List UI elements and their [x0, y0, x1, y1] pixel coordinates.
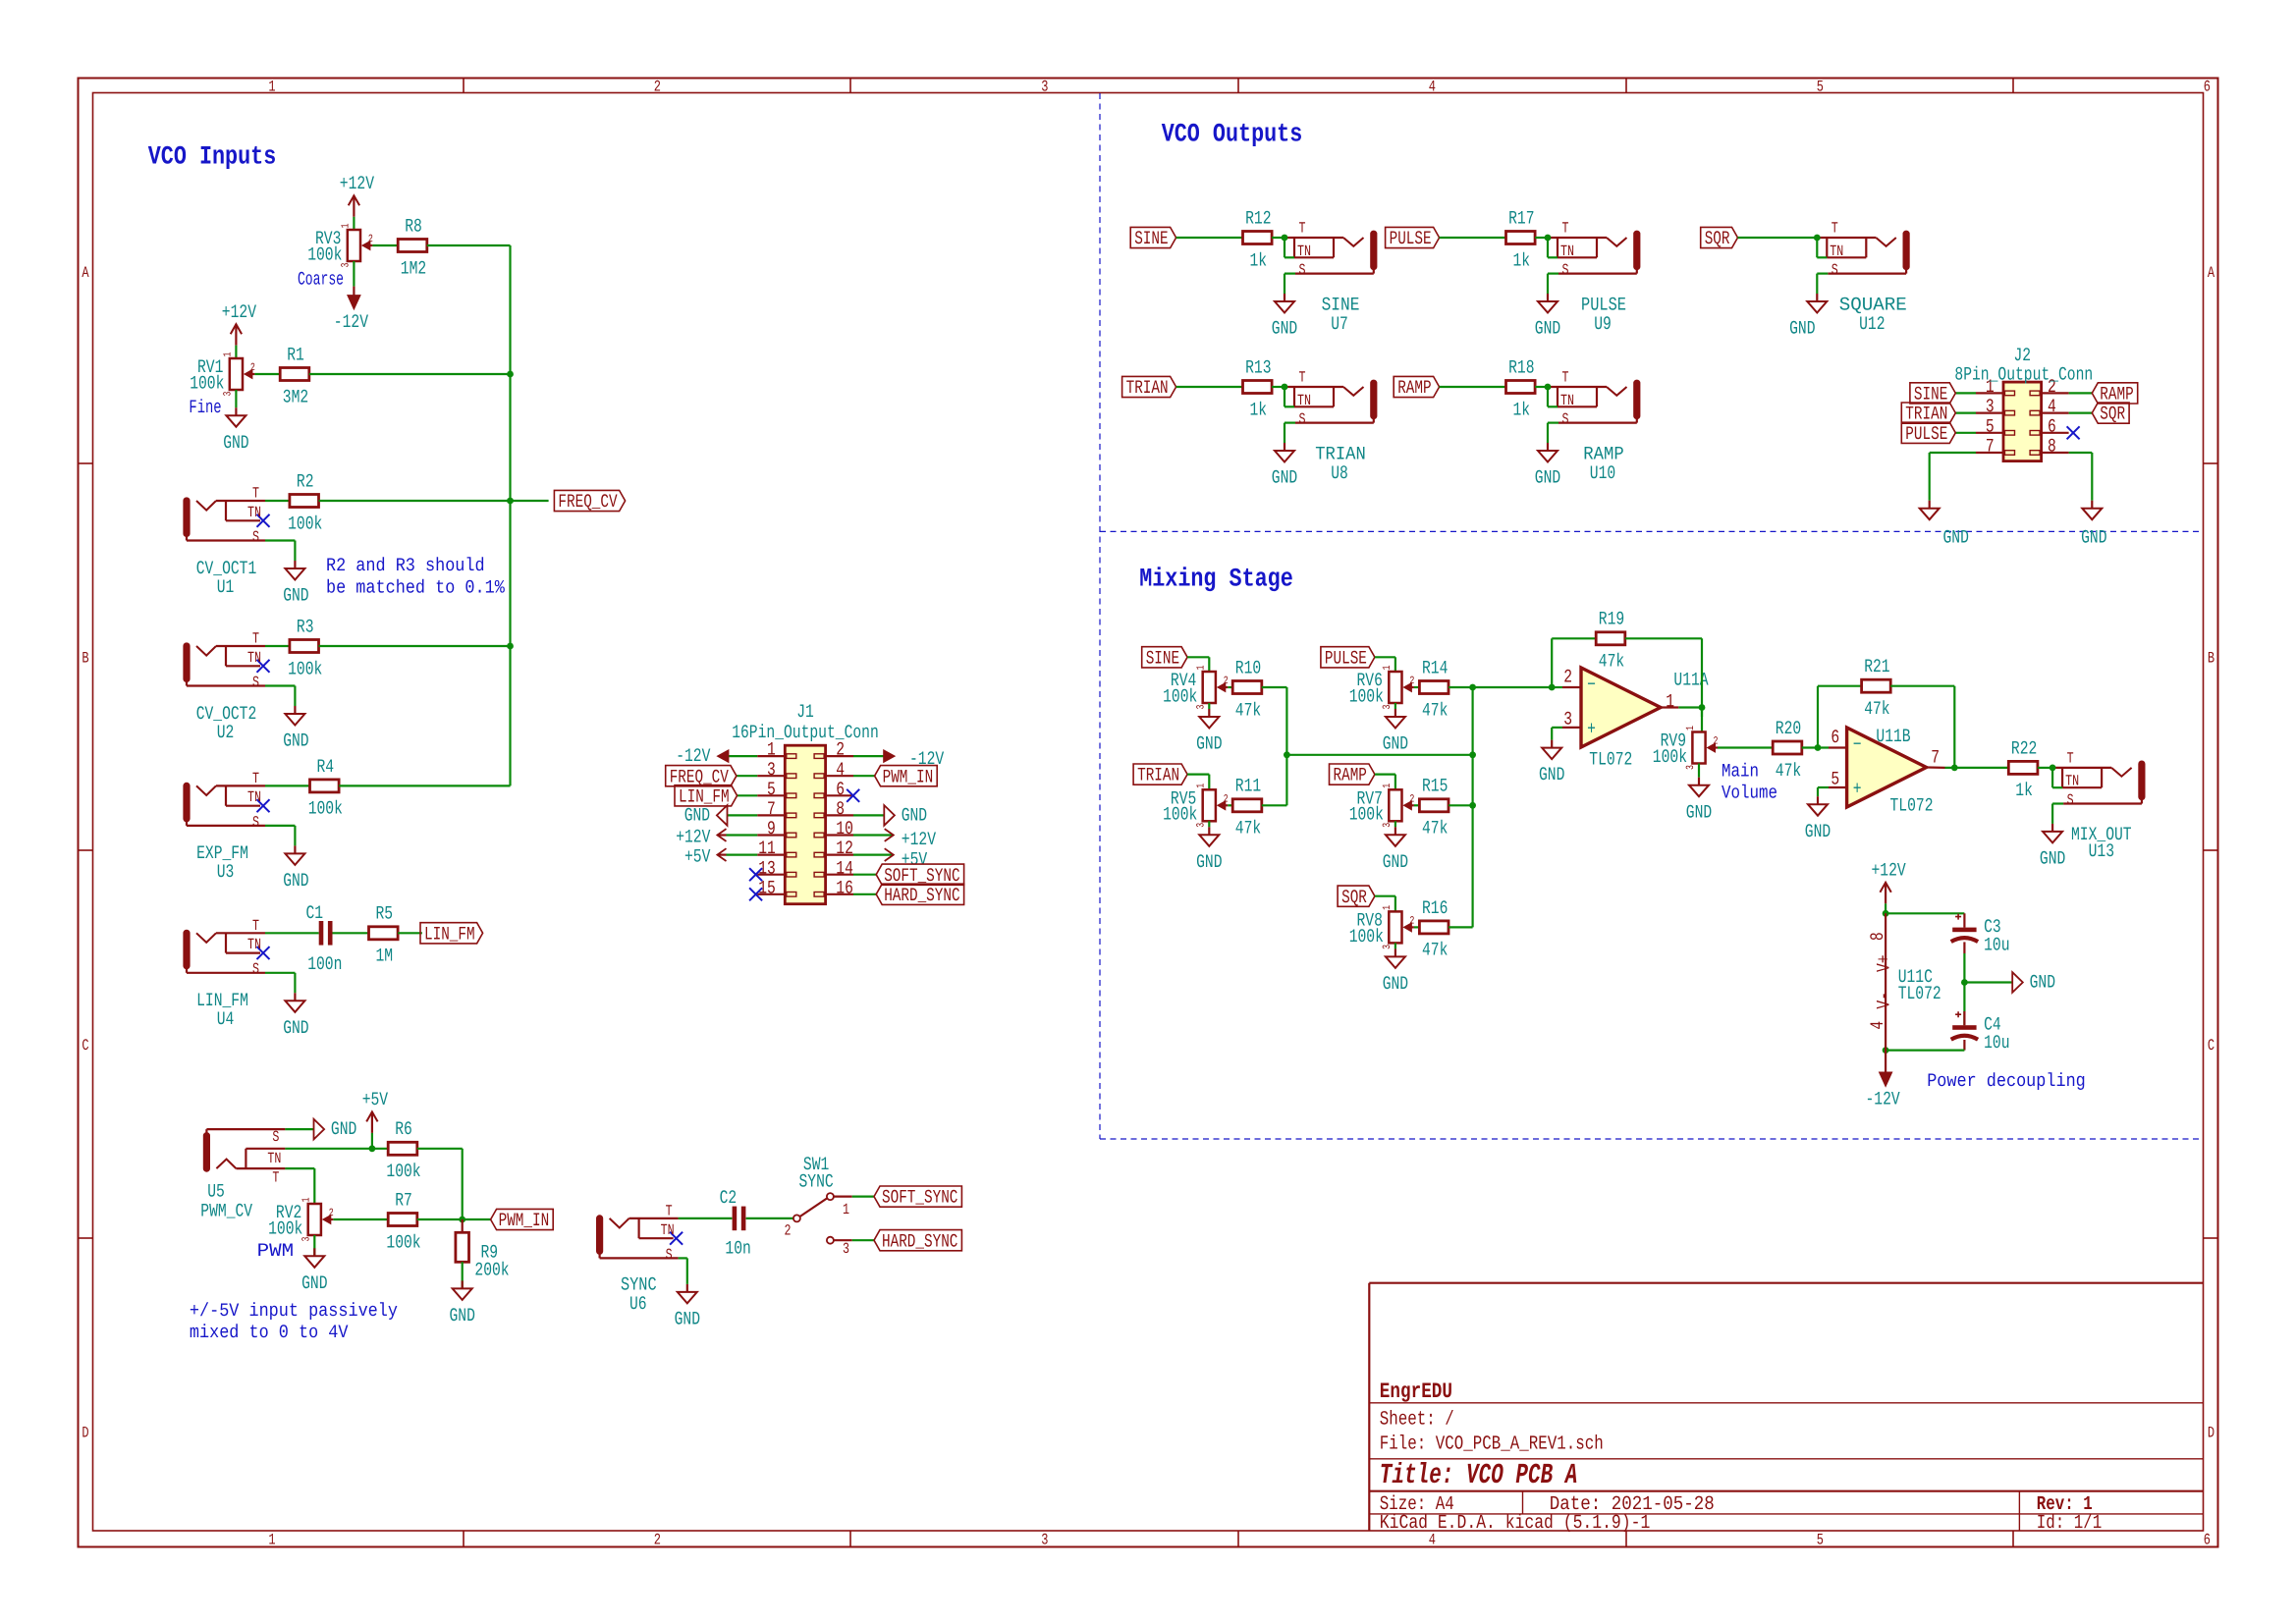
global label PULSE (U9)	[1386, 227, 1440, 249]
svg-text:T: T	[666, 1202, 673, 1219]
svg-text:GND: GND	[1539, 764, 1564, 785]
svg-text:RAMP: RAMP	[1397, 377, 1431, 399]
svg-text:4: 4	[2048, 396, 2056, 417]
svg-text:FREQ_CV: FREQ_CV	[558, 491, 618, 513]
global label HARD_SYNC (J1)	[876, 884, 963, 906]
title block sheet	[1380, 1408, 1454, 1431]
svg-text:2: 2	[1409, 915, 1414, 927]
wire RV4 wiper to R10	[1228, 686, 1232, 688]
wire R2 to junction	[319, 500, 549, 502]
svg-text:PWM_CV: PWM_CV	[200, 1200, 252, 1221]
svg-text:TL072: TL072	[1890, 794, 1934, 816]
svg-text:2: 2	[1409, 676, 1414, 687]
wire U1 T to R2	[265, 500, 290, 502]
svg-text:SYNC: SYNC	[799, 1171, 834, 1193]
wire RV2 wiper to R7	[333, 1218, 388, 1220]
global label SQR (J2)	[2092, 403, 2129, 425]
ground GND (RV9)	[1686, 778, 1712, 824]
jack U4 LIN_FM	[184, 917, 270, 978]
potentiometer RV3 100k	[307, 223, 373, 267]
svg-text:100k: 100k	[288, 513, 322, 534]
power +5V	[362, 1089, 389, 1149]
svg-text:GND: GND	[283, 730, 308, 752]
ground GND (RV1)	[223, 407, 248, 454]
svg-text:11: 11	[758, 838, 776, 859]
svg-text:GND: GND	[223, 432, 248, 454]
svg-text:6: 6	[836, 779, 845, 800]
ground GND (U6)	[675, 1284, 700, 1330]
svg-text:2: 2	[1224, 793, 1229, 805]
junction U11A pin2	[1549, 684, 1556, 691]
svg-text:10u: 10u	[1984, 1032, 2009, 1054]
junction R2/bus	[507, 498, 514, 505]
resistor R21 47k feedback	[1818, 656, 1954, 768]
svg-text:U11B: U11B	[1876, 726, 1910, 747]
jack U6 SYNC	[597, 1202, 683, 1264]
svg-text:-12V: -12V	[334, 311, 369, 333]
jack U12 SQUARE	[1789, 220, 1909, 340]
svg-text:100n: 100n	[307, 953, 342, 975]
note Power decoupling	[1927, 1070, 2086, 1092]
svg-text:2: 2	[654, 79, 661, 96]
svg-text:A: A	[82, 264, 88, 282]
svg-text:S: S	[252, 813, 259, 831]
svg-text:6: 6	[2204, 79, 2211, 96]
title block rev	[2037, 1493, 2093, 1516]
svg-text:File: VCO_PCB_A_REV1.sch: File: VCO_PCB_A_REV1.sch	[1380, 1433, 1604, 1455]
jack U8 TRIAN	[1272, 369, 1377, 489]
wire RV2 pin3 to GND	[313, 1235, 315, 1256]
svg-text:GND: GND	[1383, 973, 1408, 995]
svg-text:1k: 1k	[1250, 249, 1268, 271]
junction R1/bus	[507, 371, 514, 378]
svg-text:U9: U9	[1594, 313, 1612, 335]
svg-text:B: B	[82, 649, 88, 667]
svg-text:S: S	[252, 674, 259, 691]
potentiometer RV4 100k	[1163, 665, 1229, 709]
svg-text:Sheet: /: Sheet: /	[1380, 1408, 1454, 1431]
wire R3 to bus	[319, 645, 511, 647]
svg-text:100k: 100k	[308, 798, 343, 820]
wire U2 S to GND	[265, 686, 295, 707]
wire R22 to jack U13	[2038, 767, 2052, 769]
ground GND (U11B+)	[1805, 796, 1831, 842]
connector J1 16Pin_Output_Conn	[732, 701, 879, 904]
svg-text:HARD_SYNC: HARD_SYNC	[884, 885, 959, 906]
ground GND (R9)	[450, 1280, 475, 1326]
wire R4 to bus corner	[339, 784, 510, 786]
svg-text:TN: TN	[247, 788, 261, 806]
svg-text:−: −	[1853, 734, 1862, 756]
wire RV8 wiper to R16	[1414, 926, 1420, 928]
capacitor C3 10u	[1951, 914, 2010, 956]
svg-text:100k: 100k	[1349, 804, 1384, 826]
svg-text:+/-5V input passively: +/-5V input passively	[190, 1300, 398, 1322]
section header VCO Outputs	[1162, 120, 1303, 149]
switch SW1 SYNC	[785, 1154, 852, 1258]
svg-text:47k: 47k	[1422, 699, 1448, 721]
wire U5 T to RV2	[285, 1168, 314, 1204]
svg-text:2: 2	[785, 1222, 792, 1240]
jack U2 CV_OCT2	[184, 630, 270, 692]
svg-text:Id: 1/1: Id: 1/1	[2037, 1512, 2103, 1535]
power +12V (RV1)	[222, 301, 257, 346]
svg-text:GND: GND	[2030, 972, 2055, 994]
svg-text:TL072: TL072	[1589, 749, 1632, 771]
svg-text:Power decoupling: Power decoupling	[1927, 1070, 2086, 1092]
wire J1 pin3	[737, 775, 757, 777]
svg-text:GND: GND	[1789, 318, 1815, 340]
power +5V (J1 pin11)	[684, 846, 727, 868]
gnd port GND (J1 pin7)	[684, 805, 728, 827]
junction R14/vertical	[1469, 684, 1476, 691]
label LIN_FM / U4	[196, 990, 248, 1030]
svg-text:Coarse: Coarse	[298, 268, 344, 290]
svg-text:+12V: +12V	[1872, 859, 1907, 881]
wire bus vertical FREQ_CV	[509, 374, 511, 785]
label PULSE / U9	[1581, 295, 1626, 336]
svg-text:SYNC: SYNC	[621, 1274, 657, 1296]
svg-text:U11A: U11A	[1673, 669, 1709, 690]
connector J2 8Pin_Output_Conn	[1954, 345, 2093, 461]
wire RV3 wiper to R8	[372, 244, 398, 246]
svg-text:S: S	[1299, 410, 1306, 428]
junction TN/+5V	[369, 1145, 376, 1152]
svg-text:PULSE: PULSE	[1905, 423, 1947, 445]
junction R15/vertical	[1469, 802, 1476, 809]
wire U3 T to R4	[265, 784, 310, 786]
resistor R17 1k	[1506, 207, 1536, 271]
svg-text:2: 2	[1714, 736, 1719, 748]
resistor R11 47k	[1232, 776, 1262, 839]
svg-text:PULSE: PULSE	[1390, 228, 1432, 249]
global label SINE (U7)	[1130, 227, 1175, 249]
svg-text:1: 1	[1382, 784, 1394, 788]
wire R5 to label	[398, 932, 422, 934]
svg-text:10n: 10n	[725, 1238, 750, 1260]
wire SQR to jack	[1738, 237, 1818, 239]
svg-text:GND: GND	[1196, 733, 1222, 755]
potentiometer RV7 100k	[1349, 784, 1415, 828]
wire RV7 wiper to R15	[1414, 804, 1420, 806]
svg-text:T: T	[272, 1169, 279, 1187]
svg-text:16Pin_Output_Conn: 16Pin_Output_Conn	[732, 722, 879, 743]
svg-text:TN: TN	[267, 1150, 281, 1167]
svg-text:R13: R13	[1245, 356, 1271, 378]
label SINE / U7	[1322, 295, 1360, 336]
wire J2 pin2 RAMP	[2069, 392, 2093, 394]
global label SINE (J2)	[1910, 383, 1955, 406]
wire U2 T to R3	[265, 645, 290, 647]
global label SQR (U12)	[1701, 227, 1738, 249]
svg-text:GND: GND	[684, 805, 710, 827]
ground GND (RV4)	[1196, 709, 1222, 755]
svg-text:GND: GND	[283, 585, 308, 607]
svg-text:EngrEDU: EngrEDU	[1380, 1380, 1452, 1404]
svg-text:−: −	[1587, 675, 1596, 696]
wire R14 to opamp node	[1449, 686, 1552, 688]
wire U6 T to C2	[679, 1217, 733, 1219]
resistor R19 47k	[1552, 609, 1702, 708]
label CV_OCT1 / U1	[196, 558, 257, 598]
wire RV7 pin3 to GND	[1394, 821, 1396, 827]
label Coarse	[298, 268, 344, 290]
global label FREQ_CV (J1)	[666, 766, 737, 788]
resistor R15 47k	[1419, 776, 1449, 839]
resistor R20 47k	[1773, 718, 1802, 782]
global label SINE (mixer)	[1142, 647, 1187, 670]
jack U3 EXP_FM	[184, 770, 270, 832]
svg-text:C2: C2	[720, 1187, 738, 1209]
svg-text:1k: 1k	[1513, 249, 1531, 271]
svg-text:S: S	[272, 1128, 279, 1146]
resistor R6 100k	[386, 1118, 420, 1182]
junction +12V rail	[1883, 910, 1889, 917]
svg-text:10: 10	[836, 818, 853, 839]
label MIX_OUT / U13	[2071, 824, 2132, 862]
svg-text:SOFT_SYNC: SOFT_SYNC	[882, 1187, 957, 1209]
wire C3 to GND junction	[1963, 942, 1965, 982]
wire J1 pin11 +5V	[717, 853, 757, 855]
svg-text:TN: TN	[661, 1221, 675, 1239]
svg-text:100k: 100k	[386, 1161, 420, 1182]
svg-text:1: 1	[1195, 665, 1207, 670]
gnd port GND (J1 pin8)	[884, 805, 927, 827]
global label TRIAN (U8)	[1122, 376, 1176, 399]
svg-text:1: 1	[268, 1532, 275, 1549]
potentiometer RV1 100k	[190, 352, 255, 396]
svg-text:5: 5	[1817, 79, 1824, 96]
svg-text:R2: R2	[297, 470, 314, 492]
svg-text:1: 1	[268, 79, 275, 96]
jack U5 PWM_CV (flipped)	[203, 1128, 285, 1187]
svg-text:Main: Main	[1722, 761, 1759, 783]
svg-text:47k: 47k	[1422, 940, 1448, 961]
svg-text:GND: GND	[1196, 851, 1222, 873]
svg-text:R1: R1	[287, 344, 304, 365]
label Fine	[189, 397, 221, 418]
label TRIAN / U8	[1315, 444, 1366, 485]
junction -12V rail	[1883, 1047, 1889, 1054]
svg-text:TRIAN: TRIAN	[1137, 765, 1179, 786]
svg-text:Volume: Volume	[1722, 783, 1777, 804]
svg-text:B: B	[2208, 649, 2214, 667]
svg-text:1: 1	[340, 223, 352, 228]
svg-text:R2 and R3 should: R2 and R3 should	[326, 555, 485, 576]
svg-text:1: 1	[843, 1201, 849, 1218]
svg-text:200k: 200k	[474, 1260, 509, 1281]
wire RV4 pin3 to GND	[1208, 703, 1210, 709]
svg-text:100k: 100k	[1653, 746, 1687, 768]
junction U11B pin6	[1815, 744, 1822, 751]
resistor R5 1M	[369, 903, 399, 967]
wire RV9 pin3 to GND	[1698, 764, 1700, 778]
svg-text:GND: GND	[1535, 318, 1560, 340]
jack U7 SINE	[1272, 220, 1377, 340]
svg-text:100k: 100k	[1349, 685, 1384, 707]
svg-text:3: 3	[767, 759, 776, 781]
svg-text:R6: R6	[395, 1118, 412, 1140]
svg-text:R10: R10	[1235, 657, 1261, 678]
wire J2 pin5 PULSE	[1955, 432, 1976, 434]
svg-text:3: 3	[1563, 709, 1572, 730]
ground GND (U4)	[283, 993, 308, 1039]
capacitor C1 100n	[306, 902, 343, 975]
wire RV6 pin3 to GND	[1394, 703, 1396, 709]
svg-text:10u: 10u	[1984, 934, 2009, 955]
wire R8 to bus corner	[427, 245, 511, 374]
wire +12V to RV1 pin1	[235, 346, 237, 358]
svg-text:V-: V-	[1873, 992, 1894, 1009]
resistor R8 1M2	[398, 215, 427, 279]
wire C1 to R5	[333, 932, 369, 934]
power -12V (J1 pin2)	[884, 748, 945, 770]
svg-text:4: 4	[1867, 1021, 1888, 1030]
svg-text:GND: GND	[301, 1272, 327, 1294]
svg-text:100k: 100k	[190, 372, 224, 394]
svg-text:T: T	[1299, 220, 1306, 238]
svg-text:VCO Outputs: VCO Outputs	[1162, 120, 1303, 149]
svg-text:100k: 100k	[288, 658, 322, 679]
junction bus right	[1469, 751, 1476, 758]
svg-text:100k: 100k	[1163, 685, 1197, 707]
svg-text:GND: GND	[902, 805, 927, 827]
wire SINE to R12	[1176, 237, 1243, 239]
resistor R3 100k	[288, 616, 322, 679]
svg-text:VCO Inputs: VCO Inputs	[148, 142, 277, 172]
wire J2 pin7 to GND	[1930, 453, 1976, 501]
svg-text:7: 7	[767, 798, 776, 820]
wire RV5 wiper to R11	[1228, 804, 1232, 806]
svg-text:T: T	[1562, 369, 1569, 387]
no-connect J2 pin6	[2067, 426, 2080, 439]
resistor R1 3M2	[280, 344, 309, 407]
wire R20 to U11B pin6	[1802, 746, 1829, 748]
svg-text:7: 7	[1986, 436, 1995, 458]
global label HARD_SYNC (SW1)	[874, 1230, 961, 1253]
svg-text:+12V: +12V	[340, 173, 375, 194]
title block file	[1380, 1433, 1604, 1455]
svg-text:RAMP: RAMP	[1334, 765, 1367, 786]
title block	[1369, 1283, 2203, 1531]
wire output to RV9	[1678, 708, 1702, 732]
resistor R9 200k (vertical)	[456, 1219, 510, 1281]
wire J1 pin7 GND	[728, 814, 758, 816]
svg-text:3: 3	[1041, 1532, 1048, 1549]
svg-text:R8: R8	[405, 215, 422, 237]
label EXP_FM / U3	[196, 842, 248, 883]
ground GND (RV6)	[1383, 709, 1408, 755]
wire R12 to jack	[1272, 237, 1285, 239]
power +12V (RV3)	[340, 173, 375, 217]
wire SINE to RV4 pin1	[1187, 657, 1209, 672]
svg-text:GND: GND	[1805, 821, 1831, 842]
title block kicad version	[1380, 1512, 1651, 1535]
svg-text:5: 5	[767, 779, 776, 800]
wire R13 to jack	[1272, 386, 1285, 388]
svg-text:S: S	[1831, 261, 1838, 279]
svg-text:mixed to 0 to 4V: mixed to 0 to 4V	[190, 1322, 349, 1343]
wire R15 to vertical	[1449, 804, 1473, 806]
power +12V (J1 pin9)	[676, 827, 726, 848]
jack U13 MIX_OUT	[2040, 750, 2145, 870]
svg-text:7: 7	[1931, 746, 1940, 768]
svg-text:SQR: SQR	[1705, 228, 1730, 249]
wire pin2 node	[1552, 638, 1562, 687]
op-amp U11B TL072	[1829, 726, 1945, 816]
jack U1 CV_OCT1	[184, 484, 270, 546]
op-amp U11C power pins	[1867, 913, 1941, 1050]
svg-text:V+: V+	[1873, 954, 1894, 972]
wire PULSE to RV6 pin1	[1375, 657, 1395, 672]
wire J2 pin3 TRIAN	[1955, 412, 1976, 414]
title block company EngrEDU	[1380, 1380, 1452, 1404]
ground GND (U2)	[283, 706, 308, 752]
potentiometer RV5 100k	[1163, 784, 1229, 828]
wire U1 S to GND	[265, 541, 295, 562]
svg-text:D: D	[2208, 1424, 2214, 1441]
svg-text:100k: 100k	[386, 1231, 420, 1253]
svg-text:S: S	[2067, 791, 2074, 809]
wire RAMP to RV7 pin1	[1375, 775, 1395, 790]
wire R1 to bus	[309, 373, 511, 375]
wire RV3 pin3 down	[353, 261, 355, 287]
wire output to R22	[1945, 767, 2009, 769]
global label RAMP (J2)	[2092, 383, 2137, 406]
power -12V (RV3)	[334, 287, 369, 334]
svg-text:9: 9	[767, 818, 776, 839]
jack U9 PULSE	[1535, 220, 1640, 340]
svg-text:R14: R14	[1422, 657, 1448, 678]
svg-text:TN: TN	[1297, 392, 1311, 409]
svg-text:TN: TN	[247, 504, 261, 521]
wire RAMP to R18	[1440, 386, 1506, 388]
svg-text:+12V: +12V	[222, 301, 257, 323]
svg-text:1M: 1M	[376, 946, 394, 967]
svg-text:T: T	[1831, 220, 1838, 238]
svg-text:T: T	[252, 484, 259, 502]
wire J1 pin12 +5V	[853, 853, 894, 855]
svg-text:GND: GND	[675, 1309, 700, 1330]
wire J1 pin8 GND	[853, 814, 884, 816]
wire R9 to GND	[462, 1262, 464, 1288]
ground GND (RV8)	[1383, 948, 1408, 995]
wire U5 TN to R6	[285, 1148, 388, 1150]
wire R10 to bus	[1262, 687, 1287, 755]
svg-text:1: 1	[1382, 665, 1394, 670]
svg-text:3: 3	[843, 1240, 849, 1258]
svg-text:GND: GND	[1686, 801, 1712, 823]
svg-text:1k: 1k	[1513, 399, 1531, 420]
svg-text:GND: GND	[1383, 733, 1408, 755]
svg-text:R17: R17	[1508, 207, 1534, 229]
resistor R12 1k	[1243, 207, 1273, 271]
resistor R13 1k	[1243, 356, 1273, 420]
svg-text:TL072: TL072	[1898, 983, 1941, 1004]
global label TRIAN (mixer)	[1133, 764, 1187, 786]
svg-text:R7: R7	[395, 1189, 412, 1211]
svg-text:14: 14	[836, 857, 853, 879]
svg-text:A: A	[2208, 264, 2214, 282]
svg-text:3: 3	[1041, 79, 1048, 96]
label Main Volume	[1722, 761, 1777, 804]
wire RV5 pin3 to GND	[1208, 821, 1210, 827]
power +12V (J1 pin10)	[885, 829, 937, 850]
svg-text:+5V: +5V	[684, 846, 711, 868]
svg-text:U8: U8	[1331, 462, 1348, 484]
svg-text:TN: TN	[247, 936, 261, 953]
resistor R2 100k	[288, 470, 322, 534]
